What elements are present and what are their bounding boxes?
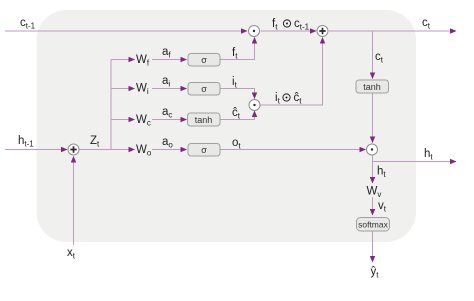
box: tanh cell state: [356, 80, 389, 93]
wire: c_{t-1} input line: [5, 30, 247, 32]
wire: W_f to sigma box f: [152, 59, 187, 61]
svg-text:ht: ht: [424, 148, 433, 162]
svg-text:ct-1: ct-1: [20, 17, 36, 31]
LSTM cell body panel: [37, 10, 417, 242]
wire: W_i to sigma box i: [152, 88, 187, 90]
wire: W_o to sigma box o: [152, 149, 187, 151]
node: plus P2 (input combine): [68, 144, 79, 155]
svg-text:softmax: softmax: [358, 220, 389, 230]
wire: vertical bus Z_t: [110, 60, 112, 150]
svg-text:σ: σ: [201, 145, 207, 155]
wire: bus to W_c: [111, 119, 135, 121]
box: sigma gate f: [188, 54, 220, 67]
node: multiply M3 (output gate product): [367, 144, 378, 155]
svg-text:ht-1: ht-1: [18, 135, 34, 149]
box: tanh gate c: [188, 113, 221, 126]
svg-text:tanh: tanh: [363, 82, 381, 92]
wire: x_t input up to plus P2: [73, 157, 75, 246]
svg-text:ct: ct: [422, 17, 431, 31]
wire: sigma o output o_t to multiply M3: [220, 149, 366, 151]
svg-text:ŷt: ŷt: [371, 266, 380, 280]
wire: W_c to tanh box c: [152, 119, 187, 121]
wire: W_v to softmax: [372, 197, 374, 215]
svg-text:σ: σ: [201, 84, 207, 94]
wire: bus to W_i: [111, 88, 135, 90]
wire: bus to W_f: [111, 59, 135, 61]
svg-text:tanh: tanh: [195, 115, 213, 125]
wire: h_t output branch right: [373, 161, 457, 163]
wire: c_t branch down to tanh: [372, 31, 374, 79]
node: multiply M2 (input gate product): [249, 100, 260, 111]
node: multiply M1 (forget gate product): [249, 26, 260, 37]
wire: tanh c output up to multiply M2: [220, 111, 255, 120]
box: sigma gate o: [188, 144, 220, 157]
wire: h_t down to W_v: [372, 162, 374, 184]
svg-text:xt: xt: [67, 247, 76, 261]
box: sigma gate i: [188, 83, 220, 96]
wire: h_{t-1} input line: [5, 149, 67, 151]
wire: multiply M1 to plus P1: [261, 30, 317, 32]
wire: multiply M3 down: [372, 156, 374, 162]
wire: multiply M2 to plus P1: [261, 38, 323, 106]
label: i_t odot c_hat_t: [275, 92, 302, 106]
wire: plus P1 to c_t output: [329, 30, 456, 32]
label: f_t odot c_{t-1}: [272, 18, 310, 32]
wire: plus P2 to W_o: [80, 149, 135, 151]
wire: sigma i output i_t down to multiply M2: [220, 89, 255, 99]
wire: tanh to multiply M3: [372, 94, 374, 143]
box: softmax: [357, 218, 390, 232]
wire: sigma f output f_t up to multiply M1: [220, 38, 255, 60]
wire: softmax to y_hat output: [372, 232, 374, 263]
svg-text:σ: σ: [201, 55, 207, 65]
node: plus P1 (cell state sum): [317, 26, 328, 37]
